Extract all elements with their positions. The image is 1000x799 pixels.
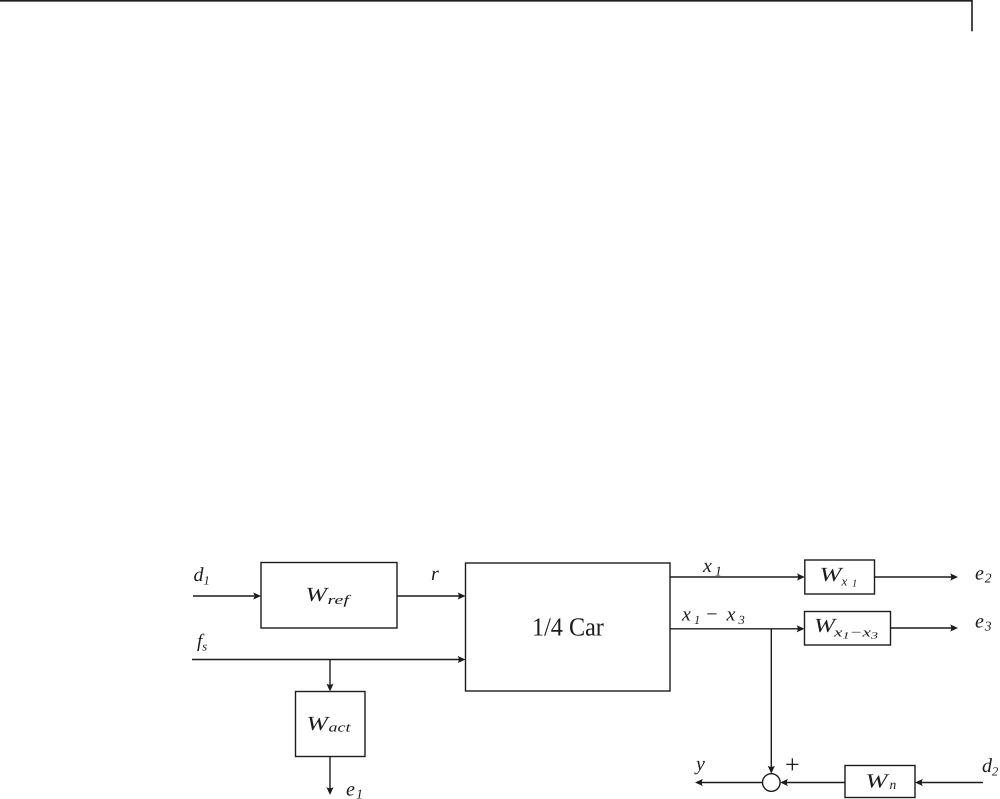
- arrowhead into W_x1-x3: [797, 625, 805, 632]
- block W_ref: [261, 563, 397, 629]
- svg-text:1: 1: [694, 613, 700, 627]
- svg-text:W: W: [307, 713, 332, 735]
- svg-text:y: y: [694, 753, 705, 775]
- svg-text:x: x: [726, 603, 736, 625]
- wire W_act to e1: [329, 757, 331, 789]
- wire summing junction to y: [702, 782, 763, 784]
- wire branch down to summing junction: [770, 629, 772, 768]
- svg-text:r: r: [431, 563, 439, 585]
- svg-text:x: x: [841, 574, 848, 589]
- block W_x1: [805, 560, 875, 594]
- top page rule: [0, 0, 973, 2]
- arrowhead into W_x1: [797, 573, 805, 580]
- svg-text:x: x: [681, 603, 691, 625]
- svg-text:+: +: [785, 750, 800, 779]
- wire W_x1 to e2: [875, 576, 952, 578]
- svg-text:1: 1: [715, 564, 722, 579]
- svg-text:e3: e3: [975, 611, 992, 634]
- arrowhead e3: [950, 624, 958, 631]
- svg-text:W: W: [306, 584, 331, 606]
- wire x1 to W_x1: [670, 576, 799, 578]
- wire d2 to W_n: [922, 782, 984, 784]
- arrowhead into W_n: [915, 779, 923, 786]
- wire x1-x3 to W_x1-x3: [670, 628, 799, 630]
- arrowhead e1: [326, 787, 333, 795]
- arrowhead into W_act: [326, 684, 333, 692]
- svg-text:1/4 Car: 1/4 Car: [532, 613, 604, 642]
- wire d1 to W_ref: [193, 595, 254, 597]
- block 1/4 Car: [466, 563, 671, 691]
- svg-text:n: n: [890, 777, 897, 792]
- summing junction circle: [763, 774, 781, 792]
- wire W_x1-x3 to e3: [891, 627, 952, 629]
- wire f_s to 1/4 Car: [192, 659, 459, 661]
- arrowhead f_s into 1/4 Car: [458, 656, 466, 663]
- arrowhead into summing junction top: [768, 766, 775, 774]
- svg-text:−: −: [705, 603, 719, 625]
- block W_x1-x3: [805, 612, 891, 646]
- arrowhead into summing junction right: [780, 779, 788, 786]
- svg-text:d1: d1: [194, 564, 210, 588]
- svg-text:d2: d2: [982, 755, 998, 779]
- arrowhead r into 1/4 Car: [458, 592, 466, 599]
- arrowhead e2: [950, 573, 958, 580]
- svg-text:W: W: [866, 771, 891, 793]
- svg-text:act: act: [329, 720, 352, 735]
- svg-text:1: 1: [852, 579, 857, 590]
- svg-text:e1: e1: [346, 779, 363, 799]
- block W_act: [296, 692, 366, 757]
- arrowhead y: [695, 779, 703, 786]
- top-right vertical stub: [971, 0, 973, 31]
- svg-text:3: 3: [738, 613, 745, 627]
- svg-text:x: x: [702, 555, 712, 577]
- svg-text:fs: fs: [197, 631, 207, 654]
- svg-text:e2: e2: [975, 563, 992, 586]
- svg-text:ref: ref: [328, 592, 353, 607]
- svg-text:x1−x3: x1−x3: [833, 625, 879, 642]
- wire W_n to summing junction: [787, 782, 846, 784]
- block W_n: [845, 766, 915, 798]
- wire W_ref to 1/4 Car (r): [397, 595, 459, 597]
- arrowhead into W_ref: [253, 592, 261, 599]
- wire branch down to W_act: [329, 660, 331, 686]
